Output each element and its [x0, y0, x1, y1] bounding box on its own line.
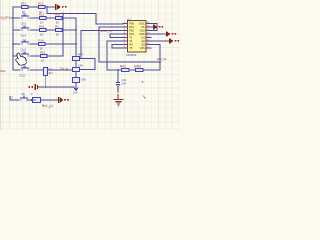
svg-text:S2: S2	[23, 24, 27, 28]
wire row1	[13, 6, 56, 8]
svg-text:TX: TX	[129, 46, 133, 50]
wire left bus	[12, 7, 14, 70]
wire pin1 left feed	[96, 14, 123, 25]
battery BT1	[28, 84, 37, 96]
svg-text:CD4060: CD4060	[126, 53, 137, 57]
resistor R5	[39, 25, 46, 37]
resistor R4	[55, 13, 62, 25]
capacitor C41	[116, 78, 127, 93]
svg-text:C(1P): C(1P)	[1, 16, 10, 20]
resistor R2	[38, 1, 45, 13]
svg-text:1K: 1K	[41, 59, 45, 63]
svg-text:VSS: VSS	[140, 46, 145, 50]
svg-text:VC: VC	[141, 25, 145, 29]
svg-text:C41: C41	[122, 78, 127, 82]
svg-text:1K: 1K	[56, 33, 60, 37]
svg-text:1K: 1K	[33, 98, 36, 102]
svg-text:R10: R10	[21, 1, 27, 5]
node row1 drop junction	[46, 6, 48, 8]
LED D2	[58, 97, 69, 103]
node row4 junction	[12, 43, 14, 45]
svg-text:S4: S4	[23, 50, 27, 54]
svg-text:R13: R13	[38, 1, 44, 5]
wire R10 drop	[44, 76, 46, 88]
svg-text:Q1: Q1	[141, 36, 145, 40]
node bus B row4 junction	[75, 43, 77, 45]
resistor R1	[21, 1, 28, 13]
IC U2 pin numbers right	[147, 22, 150, 49]
svg-text:Ch.9: Ch.9	[21, 34, 27, 38]
IC U2 right pin names	[139, 22, 145, 50]
wire bottom row	[10, 97, 58, 101]
wire row6	[13, 69, 43, 71]
node bottom row junction	[31, 99, 33, 101]
svg-text:Tx(_p): Tx(_p)	[60, 66, 68, 70]
svg-text:D4M: D4M	[134, 65, 141, 69]
svg-text:C1: C1	[10, 96, 14, 100]
wire right feedback loop	[151, 24, 157, 31]
svg-text:R15: R15	[40, 51, 46, 55]
resistor R7	[39, 39, 46, 51]
node battery drop junction	[44, 86, 46, 88]
switch S3	[21, 38, 30, 51]
node bus A top junction	[62, 13, 64, 15]
node R41 junction	[117, 69, 119, 71]
svg-text:R17: R17	[48, 67, 53, 71]
switch S1	[21, 12, 30, 25]
resistor R3	[39, 13, 46, 25]
wire pin4-pin5 left loop	[110, 34, 123, 38]
wire bus A	[62, 14, 64, 57]
LED D1	[56, 4, 67, 10]
svg-text:RX: RX	[129, 43, 133, 47]
switch S5	[20, 64, 30, 77]
wire IC right pin stubs	[146, 24, 169, 49]
cursor hand	[16, 53, 27, 65]
IC U2 pin numbers left	[124, 22, 126, 49]
wire row4	[13, 43, 76, 45]
wire cap stem	[117, 70, 119, 82]
svg-text:R14: R14	[39, 39, 45, 43]
svg-text:104: 104	[122, 82, 127, 86]
svg-text:C4U: C4U	[81, 78, 86, 82]
wire row1 drop	[46, 7, 48, 14]
node bus B row3 junction	[75, 29, 77, 31]
LED D4	[166, 32, 176, 37]
wire row6 to M2	[48, 69, 73, 71]
wire bus B	[75, 18, 77, 87]
svg-text:R12: R12	[39, 13, 45, 17]
wire mid bypass loop	[81, 59, 96, 70]
svg-text:R16: R16	[55, 13, 61, 17]
wire pin3 net with drop	[81, 31, 123, 59]
svg-text:R41: R41	[120, 65, 126, 69]
component M1	[73, 52, 84, 60]
wire battery net	[38, 86, 75, 88]
svg-text:Q2: Q2	[141, 39, 145, 43]
wire top feed	[47, 13, 96, 15]
node Rx drop junction	[159, 61, 161, 63]
svg-text:S1: S1	[23, 12, 27, 16]
wire pin6 left to R41 row	[107, 41, 123, 70]
wire R41 row	[107, 69, 160, 71]
stray mark	[143, 96, 146, 99]
svg-text:Rx1_p1: Rx1_p1	[42, 104, 53, 108]
svg-text:S6: S6	[22, 92, 26, 96]
wire IC left pin stubs	[123, 24, 128, 49]
svg-text:VDD: VDD	[139, 32, 145, 36]
LED D3	[153, 25, 163, 30]
resistor R6	[55, 25, 62, 37]
switch S2	[21, 24, 30, 37]
wire right drop x160	[159, 45, 161, 71]
wire row5	[13, 55, 63, 57]
IC U2 left pin names	[129, 22, 134, 50]
svg-text:Q3: Q3	[141, 43, 145, 47]
resistor R9	[40, 51, 47, 63]
svg-text:IR(2: IR(2	[0, 69, 6, 73]
svg-text:P00: P00	[129, 22, 134, 26]
svg-text:U2: U2	[127, 17, 131, 21]
svg-text:S3: S3	[23, 38, 27, 42]
svg-text:D1.5: D1.5	[20, 74, 26, 78]
svg-text:VCC(_P): VCC(_P)	[101, 29, 112, 33]
svg-text:4K7: 4K7	[48, 71, 53, 75]
svg-text:C40: C40	[78, 63, 83, 67]
LED D5	[169, 39, 179, 44]
switch S4	[21, 50, 30, 63]
svg-text:OSC: OSC	[139, 22, 145, 26]
ground power	[114, 94, 124, 106]
wire pin7 pin8 left loop	[112, 45, 123, 49]
wire row2	[11, 17, 76, 19]
component M2	[73, 63, 84, 71]
svg-text:OS2: OS2	[140, 29, 146, 33]
svg-text:R4: R4	[55, 25, 59, 29]
wire row3	[13, 29, 76, 31]
component M3	[73, 78, 87, 83]
resistor R42	[134, 65, 143, 72]
resistor R11	[33, 98, 41, 103]
IC U2 body	[126, 17, 146, 57]
switch S6	[20, 92, 28, 101]
resistor R41	[120, 65, 129, 72]
svg-text:P02: P02	[129, 29, 134, 33]
wire pin2 left / Rx net	[99, 27, 160, 62]
svg-text:P03: P03	[129, 32, 134, 36]
resistor R10 vertical	[44, 67, 54, 75]
ground arrow mid	[74, 87, 78, 91]
svg-text:Rx1_01: Rx1_01	[157, 57, 167, 61]
svg-text:1uF: 1uF	[73, 91, 78, 95]
svg-text:4M7: 4M7	[78, 52, 84, 56]
svg-text:R16: R16	[39, 25, 45, 29]
svg-text:P01: P01	[129, 25, 134, 29]
svg-text:1K: 1K	[40, 33, 44, 37]
